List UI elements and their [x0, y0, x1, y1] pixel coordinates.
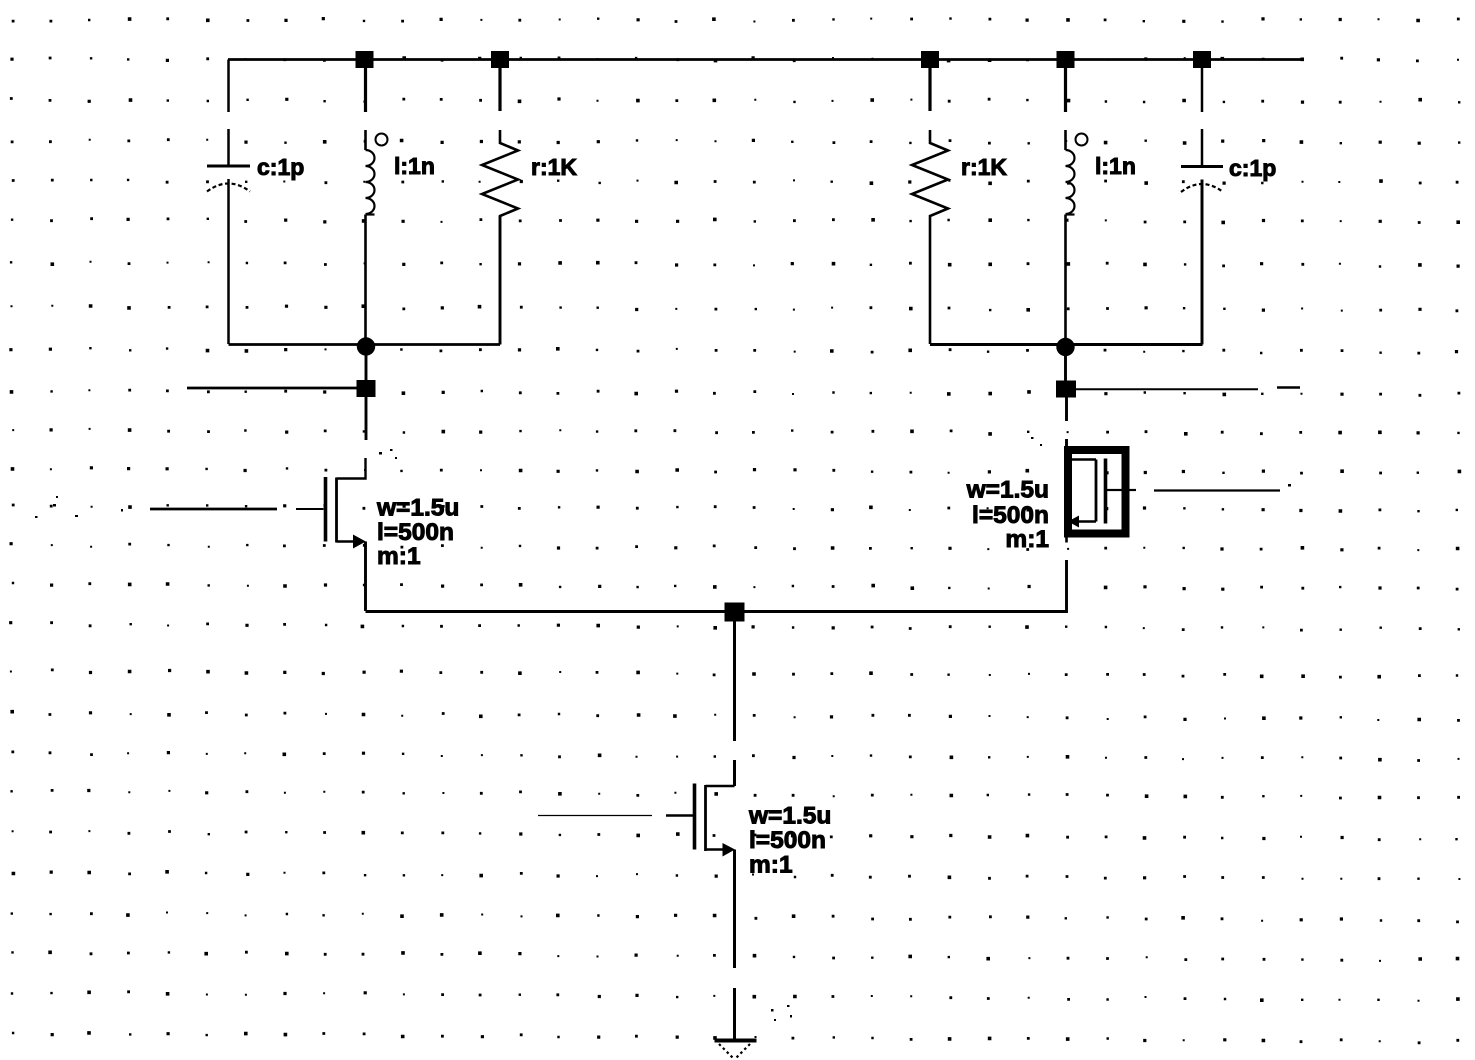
- inductor L2 l:1n right: [1066, 130, 1088, 339]
- svg-text:r:1K: r:1K: [961, 154, 1007, 180]
- node right output junction square: [1056, 381, 1076, 398]
- wire left output stub: [187, 387, 366, 390]
- wire right output node vertical: [1064, 347, 1067, 397]
- wire right tank bottom: [930, 180, 1203, 345]
- transistor M2 nmos right: [1067, 459, 1122, 543]
- transistor M3 nmos tail: [695, 784, 736, 1040]
- wire left resistor stub: [498, 66, 501, 111]
- wire M3 gate stub: [666, 814, 693, 816]
- svg-text:m:1: m:1: [1005, 526, 1049, 553]
- svg-text:l:1n: l:1n: [394, 153, 435, 179]
- node VDD junction square 3: [921, 51, 939, 68]
- wire left inductor stub: [364, 66, 367, 112]
- transistor M1 nmos left: [326, 458, 366, 611]
- node VDD junction square 5: [1193, 51, 1211, 68]
- wire right capacitor branch lead: [1201, 68, 1204, 165]
- svg-text:l=500n: l=500n: [377, 519, 454, 546]
- transistor M2 nmos right selected highlight box: [1068, 450, 1126, 534]
- node VDD junction square 2: [491, 51, 509, 68]
- svg-text:m:1: m:1: [749, 852, 793, 879]
- wire VDD top rail: [228, 58, 1301, 61]
- wire right resistor stub: [928, 66, 931, 111]
- wire tail node horizontal: [366, 610, 1068, 613]
- wire M2 drain vertical: [1065, 397, 1068, 447]
- node VDD junction square 1: [356, 51, 374, 68]
- node tail junction square: [725, 603, 745, 622]
- svg-text:c:1p: c:1p: [257, 154, 304, 180]
- svg-text:l=500n: l=500n: [749, 827, 826, 854]
- wire M3 drain vertical: [733, 621, 736, 786]
- svg-text:l=500n: l=500n: [972, 502, 1049, 529]
- node left output junction square: [357, 380, 376, 397]
- wire right output stub: [1075, 388, 1258, 390]
- wire left output node vertical: [365, 346, 368, 440]
- svg-text:r:1K: r:1K: [531, 154, 577, 180]
- inductor L1 l:1n left: [366, 130, 388, 338]
- resistor R1 r:1K left: [482, 130, 518, 344]
- svg-text:w=1.5u: w=1.5u: [748, 803, 831, 830]
- node left tank junction dot: [357, 337, 375, 355]
- svg-text:w=1.5u: w=1.5u: [966, 477, 1049, 504]
- svg-text:m:1: m:1: [377, 543, 421, 570]
- ground symbol: [715, 1041, 757, 1059]
- svg-text:w=1.5u: w=1.5u: [376, 495, 459, 522]
- svg-text:l:1n: l:1n: [1095, 153, 1136, 179]
- resistor R2 r:1K right: [912, 130, 948, 344]
- capacitor C1 c:1p left: [207, 166, 250, 344]
- wire M1 gate stub: [150, 508, 277, 511]
- wire left capacitor branch lead: [227, 60, 230, 165]
- capacitor C2 c:1p right: [1181, 167, 1223, 345]
- wire M2 source vertical: [1065, 560, 1068, 613]
- node VDD junction square 4: [1057, 51, 1075, 68]
- wire right inductor stub: [1064, 66, 1067, 112]
- wire M2 gate stub: [1130, 489, 1137, 491]
- wire M3 gate stub faint: [538, 815, 652, 817]
- svg-text:c:1p: c:1p: [1229, 155, 1276, 181]
- node right tank junction dot: [1056, 338, 1074, 356]
- wire left tank bottom: [229, 216, 501, 345]
